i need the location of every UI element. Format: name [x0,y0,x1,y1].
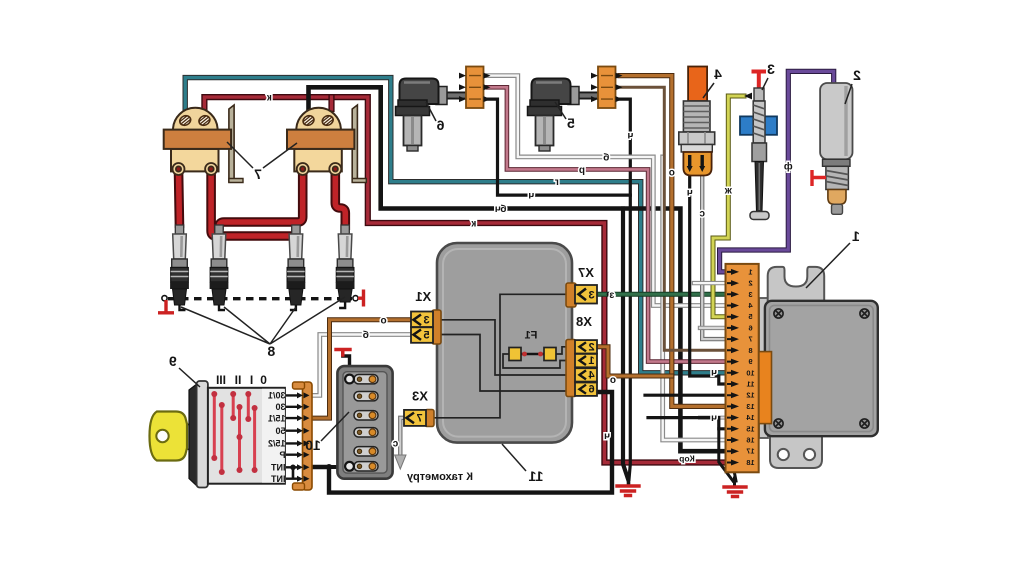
svg-text:3: 3 [423,315,429,327]
fuse F1 [503,347,571,368]
svg-text:15/1: 15/1 [268,413,286,423]
svg-text:30/1: 30/1 [268,391,286,401]
svg-text:с: с [699,209,705,220]
svg-text:ч: ч [627,131,633,142]
spark plug HV wires from coils [179,170,346,245]
junction dot bottom bus [326,464,332,470]
wire: teal г from left coil terminal to ECU pin 10 [185,78,733,373]
wire: grey с from X3 pin 7 to tachometer arrow [400,418,406,455]
svg-text:P: P [279,450,285,460]
svg-text:3: 3 [588,289,594,301]
wire: grey с from sensor 4 to ECU pin 7 [702,170,733,339]
pointer to switch 9 [179,368,200,387]
ignition switch terminal labels [268,391,286,484]
spark plug 3 [287,225,306,310]
svg-text:9: 9 [748,357,752,366]
svg-text:8: 8 [748,346,752,355]
svg-text:9: 9 [169,353,177,369]
wire: black pair from ECU connector to ground G2 [719,429,736,486]
ignition switch connector bracket [293,382,313,490]
ECU mating connector orange block [758,352,772,424]
connector X3 [404,410,434,427]
connector of boot 6 [459,67,491,109]
svg-text:7: 7 [254,166,262,182]
svg-text:6: 6 [588,384,594,396]
junction on green wire [607,292,612,297]
svg-text:о: о [381,315,387,326]
svg-text:бч: бч [495,203,507,215]
wire: black jog to ECU pin 15 [648,418,733,429]
svg-text:17: 17 [746,447,754,456]
wire: white б from boot 6 connector to ECU pin 4 [488,76,733,306]
spark plug 4 [336,225,355,308]
svg-text:2: 2 [748,279,752,288]
svg-text:10: 10 [305,437,321,453]
svg-text:III: III [216,373,226,387]
ignition switch 9 [150,381,285,488]
ignition coil 7a [164,105,243,183]
svg-text:15: 15 [746,424,754,433]
pointers to coils 7 [227,142,297,168]
svg-text:ж: ж [724,186,733,197]
pointer to sensor 3 [762,78,768,90]
tachometer arrowhead [395,455,406,469]
svg-text:о: о [610,375,616,386]
svg-text:14: 14 [746,413,755,422]
svg-text:4: 4 [714,66,722,82]
internal trace X1-5 to X8-6 [437,335,571,392]
svg-text:ч: ч [711,368,717,379]
svg-text:2: 2 [588,341,594,353]
svg-text:р: р [579,165,585,176]
svg-text:INT: INT [271,474,286,484]
sensor 3 camshaft position screw sensor [740,72,777,220]
pointer to boot 5 [555,102,566,119]
svg-text:з: з [609,290,614,301]
wire: black ч from sensor 4 to ECU pin 11 jog [690,170,733,384]
svg-text:5: 5 [567,115,575,131]
svg-text:12: 12 [746,391,754,400]
internal trace X7-3 to X3-7 [429,294,573,418]
wire: pink р from boot 6 connector to ECU pin 9 [488,87,733,361]
svg-text:30: 30 [275,402,285,412]
svg-text:5: 5 [423,330,429,342]
sensor 2 crankshaft sensor [812,83,853,214]
pointer to boot 6 [426,102,436,121]
svg-text:3: 3 [767,61,775,77]
svg-text:2: 2 [853,67,861,83]
wire: red к top run between coils down to ECU pin 18 [204,97,733,462]
wire: yellow ж from sensor 3 to ECU pin 5 [713,96,744,317]
wire: grey stub to ECU pin 6 [700,326,733,330]
wire: dark brown from boot 5 connector to ECU pin 8 [620,87,733,350]
svg-text:16: 16 [746,436,754,445]
ignition coil 7b [287,105,366,183]
fuse box 10 [337,366,392,479]
internal trace X1-3 to X8-4 [437,320,571,375]
numbered callout labels [169,61,861,484]
wire: black from X8 pin 6 along bottom bus to fuse box and switch [311,392,612,493]
svg-text:0: 0 [260,373,267,387]
wire: thick black бч from right coil to ECU pin 17 [309,87,734,451]
wire: black to ECU pin 12 [645,394,733,397]
svg-text:X7: X7 [578,265,594,280]
svg-text:10: 10 [746,368,754,377]
HV cable boot 6 [396,79,467,152]
spark plug 1 [170,225,189,310]
pointer lines for numbered callouts [179,78,852,471]
svg-text:INT: INT [271,463,286,473]
wire: black from supply terminal to fuse 1 contact [343,352,350,375]
svg-text:б: б [363,329,369,341]
ignition switch contact rows with arrows [286,395,298,478]
svg-text:К тахометру: К тахометру [406,471,473,483]
svg-text:ч: ч [528,191,534,202]
pointer to sensor 4 [703,83,714,98]
wire: black blade ends at ground G1 [627,477,631,484]
wire colour letters [266,93,793,464]
wire: white б from ignition switch 30/1 to X1 pin 5 [311,335,412,396]
wire: black branch to fuse 6 contact [329,465,345,469]
wire: pale stub to ECU pin 14 [700,416,733,420]
wire: black ч from boot 6 connector [488,99,630,195]
svg-text:7: 7 [416,413,422,425]
svg-text:15/2: 15/2 [268,439,286,449]
svg-text:ч: ч [711,413,717,424]
ground G2 red bars [724,487,746,497]
svg-text:о: о [669,168,675,179]
connector X1 [411,310,441,344]
ground mark left of plugs [158,300,174,313]
wire: brown from X8 pin 2 joining pin-13 brown [596,347,672,376]
pointer to ECU 1 [806,243,850,288]
wire: purple ф from sensor 2 to ECU pin 1 [720,71,834,272]
svg-text:11: 11 [747,380,755,389]
dashed ground line through spark plugs [162,296,358,301]
svg-text:13: 13 [746,402,754,411]
svg-text:6: 6 [748,323,752,332]
supply terminal red T at fuse box [336,350,350,356]
svg-text:F1: F1 [525,330,538,342]
connector name labels [412,265,594,404]
svg-text:4: 4 [588,369,595,381]
pointer to fuse box 10 [321,412,349,441]
svg-text:ф: ф [784,161,793,173]
svg-text:г: г [555,177,559,188]
wire: white stub to ECU pin 2 [694,281,733,285]
wire: black бч branch down to ground G1 [623,209,628,480]
wire: green з from X7 pin 3 to ECU pin 3 [596,292,733,297]
svg-text:1: 1 [748,267,752,276]
connector X8 [566,340,597,397]
svg-text:6: 6 [436,117,444,133]
svg-text:11: 11 [528,468,543,484]
svg-text:II: II [235,373,242,387]
svg-text:X1: X1 [415,289,431,304]
svg-text:X3: X3 [412,389,428,404]
sensor 4 temperature sensor [679,67,715,176]
svg-text:с: с [392,439,398,450]
svg-text:X8: X8 [576,314,592,329]
wire: white б branch to ECU pin 16 [663,157,733,440]
svg-text:8: 8 [267,343,275,359]
ground G1 red bars [617,486,639,496]
svg-text:ч: ч [604,431,610,442]
HV cable boot 5 [528,79,599,152]
wire: brown о from boot 5 connector to ECU pin 13 [620,76,733,407]
connector of boot 5 [591,67,623,109]
svg-text:1: 1 [852,228,860,244]
wire: brown о from ignition switch 15/1 to X1 pin 3 [311,320,412,418]
spark plug 2 [210,225,229,310]
svg-text:Кор: Кор [679,454,695,464]
control unit block 11 [437,243,572,443]
svg-text:3: 3 [748,290,752,299]
connector X7 [566,283,597,307]
svg-text:18: 18 [746,458,754,467]
svg-text:ч: ч [687,188,693,199]
ECU bracket plate [759,267,824,468]
svg-text:50: 50 [275,426,285,436]
pointers to spark plugs 8 [181,297,345,344]
svg-text:7: 7 [748,335,752,344]
svg-text:б: б [603,151,609,163]
pointer to sensor 2 [845,84,852,104]
ignition switch position labels [216,373,267,387]
pointer to block 11 [502,444,526,471]
ECU 1 main box [765,301,878,436]
svg-text:1: 1 [588,355,594,367]
svg-text:5: 5 [748,312,752,321]
ECU 18-pin connector strip [726,264,759,472]
ground mark right of plugs [358,290,364,307]
wire: black ч from boot 5 connector down to ground G1 [620,99,630,479]
black link between INT rows [292,467,295,478]
svg-text:I: I [250,373,253,387]
